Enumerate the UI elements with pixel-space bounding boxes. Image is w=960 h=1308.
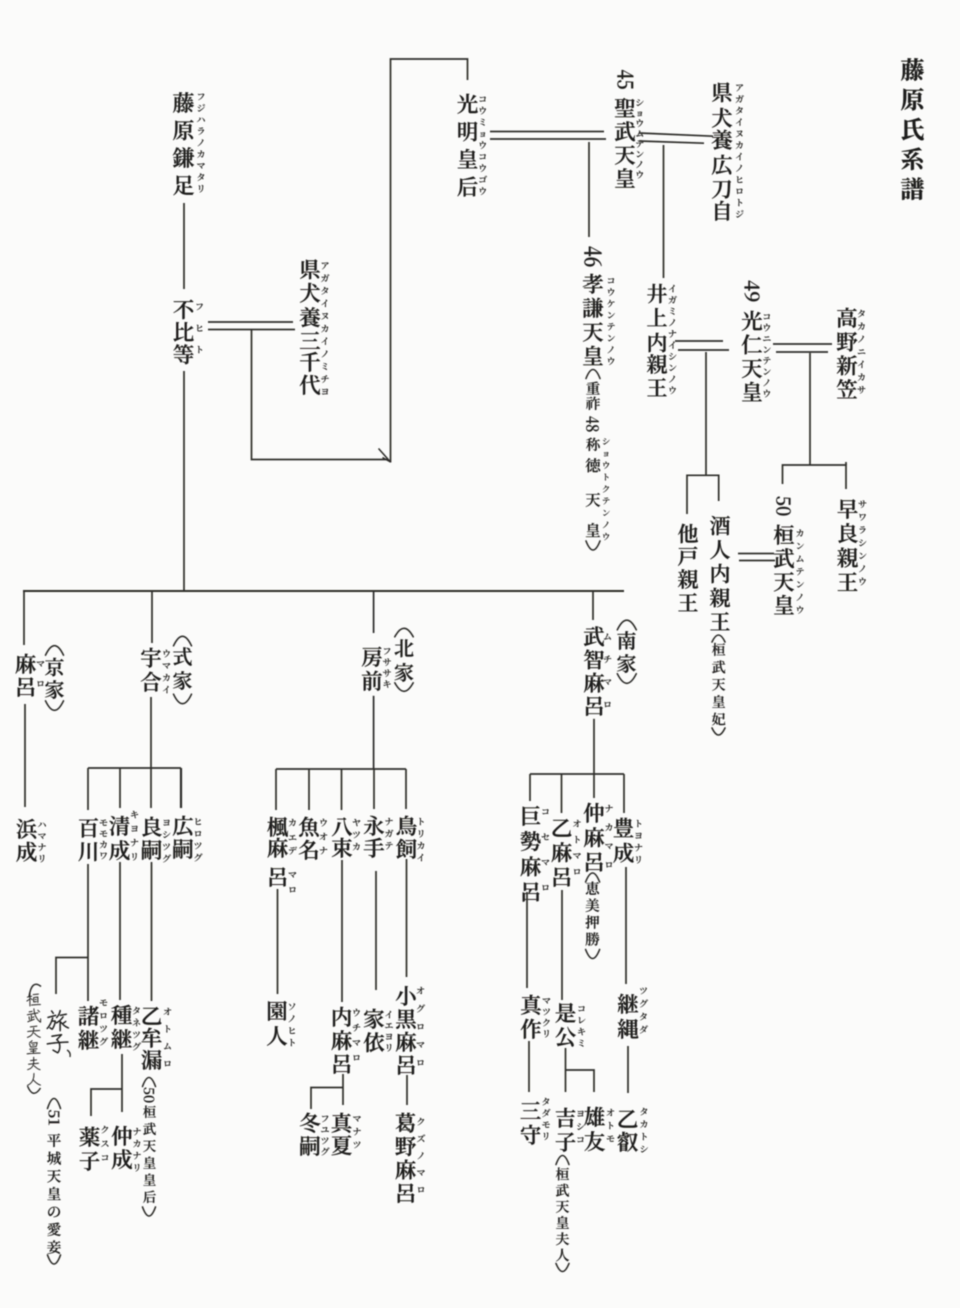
- person 50桓武天皇: [774, 497, 804, 615]
- person 良嗣: [142, 817, 171, 863]
- person 乙叡: [618, 1108, 648, 1153]
- person 不比等: [173, 300, 202, 365]
- wire 真作-三守: [528, 1041, 530, 1092]
- person 家依: [364, 1009, 393, 1052]
- wire 内麻呂-children: [311, 1074, 343, 1109]
- note 桓武天皇妃: [712, 635, 725, 735]
- wire 不比等-四家: [183, 371, 185, 590]
- marriage 酒人内親王=桓武天皇: [738, 554, 775, 561]
- person 清成: [109, 811, 138, 861]
- wire 良嗣-乙牟漏: [151, 862, 153, 1001]
- person 薬子: [79, 1126, 108, 1171]
- person 麻呂(京家): [16, 646, 64, 711]
- marriage 井上内親王=光仁天皇: [675, 341, 729, 350]
- person 県犬養三千代: [300, 259, 330, 394]
- note 50桓武天皇皇后: [143, 1078, 156, 1217]
- person 酒人内親王: [710, 516, 730, 630]
- person 井上内親王: [647, 284, 677, 396]
- marriage 聖武天皇-県犬養広刀自: [639, 133, 713, 143]
- person 葛野麻呂: [395, 1113, 425, 1203]
- wire 房前-children: [276, 696, 406, 810]
- person 雄友: [584, 1107, 614, 1151]
- wire 光仁=新笠-children: [783, 353, 847, 489]
- person 仲成: [112, 1126, 141, 1172]
- person 浜成: [16, 819, 46, 863]
- person 46孝謙天皇: [583, 247, 615, 366]
- person 県犬養広刀自: [712, 82, 744, 220]
- person 諸継: [78, 1000, 108, 1050]
- wire 井上=光仁-children: [687, 352, 719, 514]
- wire drops to four houses: [24, 591, 593, 645]
- person 園人: [267, 1001, 295, 1046]
- note 桓武天皇夫人(吉子): [556, 1156, 569, 1272]
- person 八束: [332, 817, 360, 857]
- person 種継: [111, 1005, 141, 1051]
- person 仲麻呂: [584, 803, 613, 872]
- person 49光仁天皇: [742, 281, 771, 402]
- person 真夏: [332, 1113, 361, 1155]
- person 魚名: [299, 817, 328, 860]
- person 房前(北家): [362, 628, 414, 691]
- person 高野新笠: [837, 308, 866, 399]
- wire 百川-children: [56, 864, 88, 1001]
- person 宇合(式家): [141, 636, 192, 703]
- wire 光明=聖武-孝謙: [588, 142, 590, 237]
- wire 四家横線: [23, 590, 624, 592]
- marriage 光明皇后=聖武天皇: [490, 132, 606, 140]
- person 継縄: [618, 988, 648, 1039]
- person 旅子 handwritten: [47, 1010, 71, 1057]
- person 早良親王: [837, 499, 866, 591]
- note 桓武天皇夫人 handwritten: [26, 984, 41, 1093]
- person 吉子: [556, 1108, 585, 1152]
- wire 種継-children: [91, 1054, 122, 1116]
- person 冬嗣: [300, 1113, 330, 1156]
- wire 永手-家依: [375, 871, 377, 990]
- wire 巨勢麻呂-真作: [526, 892, 528, 988]
- person 他戸親王: [678, 524, 698, 611]
- note 重祚48称徳天皇: [586, 370, 610, 551]
- person 武智麻呂(南家): [584, 620, 636, 716]
- wire 宇合-children: [88, 697, 181, 810]
- person 百川: [78, 818, 107, 861]
- person 鳥飼: [396, 816, 424, 862]
- wire 鳥飼-小黒麻呂: [406, 859, 408, 977]
- wire 清成-種継: [119, 862, 121, 1000]
- wire 楓麻呂-園人: [277, 889, 279, 994]
- person 光明皇后: [457, 94, 487, 197]
- person 三守: [521, 1098, 551, 1145]
- marriage 光仁天皇-高野新笠: [773, 344, 832, 352]
- person 45聖武天皇: [615, 70, 644, 188]
- wire 八束-内麻呂: [341, 860, 343, 1002]
- person 乙麻呂: [552, 819, 581, 887]
- person 是公: [555, 1003, 585, 1047]
- person 豊成: [613, 818, 642, 864]
- wire 乙麻呂-是公: [561, 890, 563, 1000]
- title 藤原氏系譜: [901, 58, 924, 200]
- wire 三千代-光明皇后 route: [252, 59, 468, 463]
- wire 麻呂-浜成: [24, 704, 26, 807]
- person 広嗣: [173, 816, 203, 862]
- wire 継縄-乙叡: [627, 1046, 629, 1093]
- wire 聖武=広刀自-井上内親王: [663, 145, 665, 278]
- person 内麻呂: [332, 1007, 361, 1074]
- wire 鎌足-不比等: [183, 203, 185, 289]
- wire 是公-children: [566, 1048, 595, 1092]
- marriage 不比等=県犬養三千代: [208, 322, 295, 330]
- person 真作: [521, 995, 550, 1039]
- person 永手: [364, 816, 394, 858]
- wire 武智麻呂-children: [530, 719, 624, 813]
- person 巨勢麻呂: [520, 806, 549, 902]
- person 小黒麻呂: [396, 986, 425, 1075]
- person 乙牟漏: [141, 1007, 171, 1070]
- wire 小黒麻呂-葛野麻呂: [406, 1075, 408, 1105]
- person 藤原鎌足: [173, 92, 205, 195]
- wire 豊成-継縄: [625, 867, 627, 984]
- note 恵美押勝: [586, 873, 600, 959]
- note 51平城天皇の愛妾: [47, 1099, 61, 1265]
- person 楓麻呂: [267, 817, 297, 893]
